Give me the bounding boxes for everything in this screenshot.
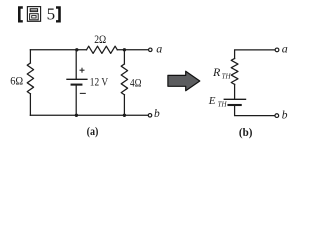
- junction dot bottom 4Ω node: [123, 114, 126, 117]
- battery minus sign: [80, 92, 86, 94]
- figure title bracket 】: [56, 6, 61, 22]
- wire battery branch lower: [75, 85, 77, 116]
- label b (a-circuit): [154, 108, 160, 120]
- wire between RTH and ETH: [234, 84, 236, 99]
- svg-text:E: E: [208, 95, 216, 107]
- battery V1 long plate: [67, 78, 87, 80]
- battery plus sign: [80, 68, 85, 73]
- resistor 2Ω zigzag: [87, 46, 118, 53]
- svg-text:2Ω: 2Ω: [94, 32, 106, 46]
- terminal a (a-circuit) open circle: [149, 48, 153, 52]
- label 6Ω: [10, 73, 23, 87]
- resistor 4Ω zigzag: [121, 64, 127, 95]
- label ETH: [208, 95, 228, 108]
- terminal b (a-circuit) open circle: [148, 114, 152, 118]
- label 12 V: [90, 74, 109, 88]
- svg-text:4Ω: 4Ω: [130, 75, 142, 89]
- wire top rail (b): [235, 50, 275, 59]
- battery ETH long plate: [224, 98, 245, 100]
- svg-text:6Ω: 6Ω: [10, 73, 23, 87]
- svg-text:12 V: 12 V: [90, 74, 109, 88]
- wire battery branch upper: [75, 50, 77, 80]
- label b (b-circuit): [282, 109, 288, 121]
- wire top rail left segment: [30, 49, 86, 51]
- label RTH: [212, 65, 231, 81]
- junction dot top battery node: [75, 48, 78, 51]
- battery ETH short plate: [229, 104, 241, 106]
- wire left rail upper: [29, 50, 31, 63]
- junction dot bottom battery node: [75, 114, 78, 117]
- svg-text:b: b: [282, 109, 288, 121]
- label 2Ω: [94, 32, 106, 46]
- caption (a): [87, 126, 99, 138]
- svg-text:b: b: [154, 108, 160, 120]
- resistor RTH zigzag: [231, 59, 238, 85]
- svg-text:(b): (b): [239, 127, 253, 139]
- svg-text:TH: TH: [222, 73, 232, 81]
- svg-text:a: a: [282, 42, 288, 56]
- label 4Ω: [130, 75, 142, 89]
- resistor 6Ω zigzag: [27, 63, 33, 94]
- battery V1 short plate: [72, 84, 82, 86]
- svg-text:TH: TH: [218, 100, 228, 108]
- wire 4Ω branch upper: [123, 50, 125, 64]
- figure title bracket 【: [18, 6, 23, 22]
- svg-text:a: a: [156, 42, 162, 56]
- figure title character 圖 (drawn): [27, 7, 40, 22]
- svg-text:R: R: [212, 65, 221, 79]
- terminal b (b-circuit) open circle: [275, 114, 279, 118]
- svg-text:(a): (a): [87, 126, 99, 138]
- label a (a-circuit): [156, 42, 162, 56]
- svg-text:5: 5: [47, 5, 56, 24]
- wire bottom rail: [30, 114, 148, 116]
- terminal a (b-circuit) open circle: [275, 48, 279, 52]
- wire left rail lower: [29, 94, 31, 116]
- wire bottom rail (b): [235, 105, 275, 116]
- caption (b): [239, 127, 253, 139]
- wire 4Ω branch lower: [123, 95, 125, 116]
- wire top rail right segment to terminal a: [117, 49, 148, 51]
- block arrow: [168, 71, 200, 91]
- label a (b-circuit): [282, 42, 288, 56]
- junction dot top 4Ω node: [123, 48, 126, 51]
- figure title number 5: [47, 5, 56, 24]
